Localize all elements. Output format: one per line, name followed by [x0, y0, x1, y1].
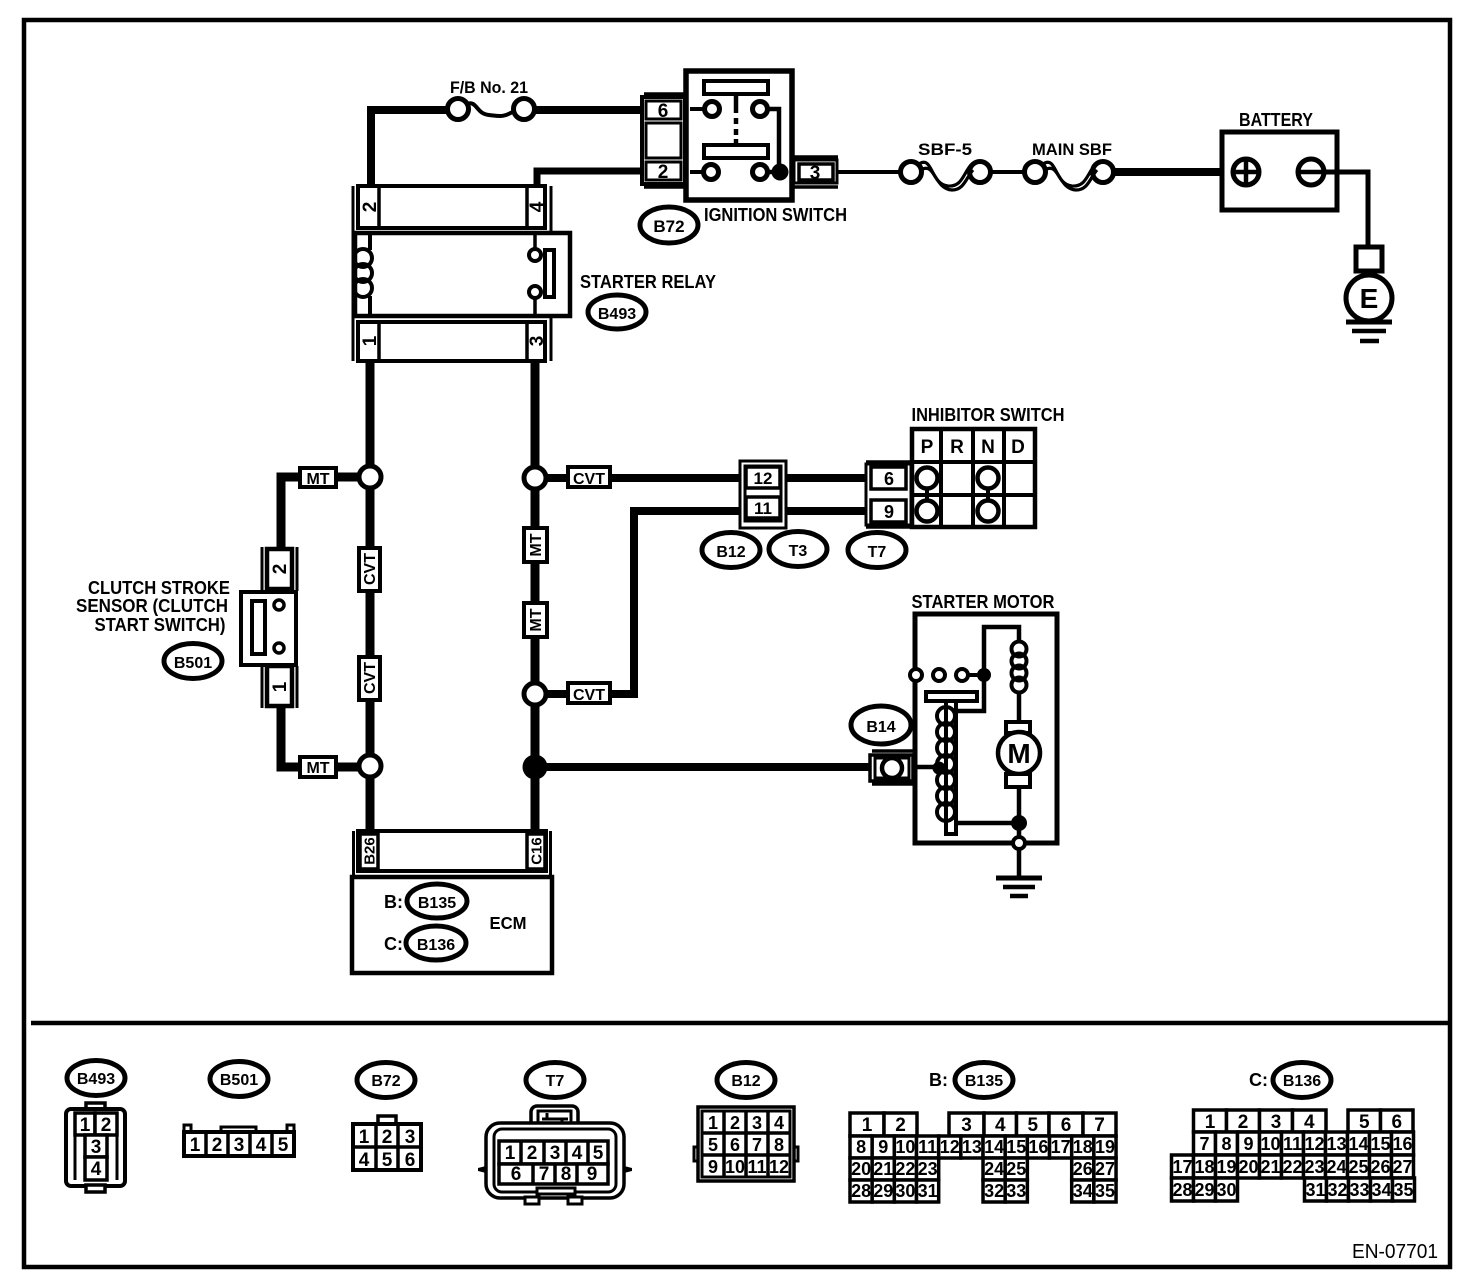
svg-text:B12: B12: [716, 544, 745, 561]
svg-text:N: N: [981, 437, 995, 458]
svg-text:M: M: [1007, 738, 1030, 769]
connector T3 oval: [769, 532, 827, 567]
svg-text:4: 4: [91, 1159, 102, 1180]
svg-text:34: 34: [1073, 1181, 1093, 1201]
solenoid contacts: [910, 668, 991, 682]
svg-text:F/B No. 21: F/B No. 21: [450, 78, 528, 97]
junction node middle trunk CVT: [524, 683, 546, 705]
svg-text:4: 4: [359, 1150, 370, 1171]
svg-text:B:: B:: [929, 1070, 948, 1090]
svg-text:5: 5: [278, 1135, 289, 1156]
battery plus terminal: [1233, 159, 1259, 185]
ignition switch contact bottom-left: [704, 165, 719, 180]
svg-text:5: 5: [1359, 1112, 1370, 1133]
solenoid plunger: [926, 692, 977, 834]
svg-text:29: 29: [1194, 1180, 1214, 1200]
svg-text:13: 13: [962, 1137, 982, 1157]
junction dot middle trunk to starter motor: [523, 755, 548, 780]
svg-text:8: 8: [774, 1135, 784, 1155]
svg-text:26: 26: [1073, 1159, 1093, 1179]
svg-text:5: 5: [382, 1150, 393, 1171]
wire relay pin3 down to ECM C16: [531, 361, 540, 831]
svg-text:12: 12: [754, 469, 773, 488]
svg-text:2: 2: [730, 1113, 740, 1133]
svg-text:B501: B501: [174, 655, 212, 672]
svg-text:4: 4: [995, 1115, 1006, 1136]
svg-text:1: 1: [708, 1113, 718, 1133]
junction dot solenoid feed: [933, 762, 946, 775]
svg-text:STARTER RELAY: STARTER RELAY: [580, 271, 717, 292]
svg-text:27: 27: [1392, 1157, 1412, 1177]
battery: [1222, 109, 1337, 210]
svg-text:6: 6: [1391, 1112, 1402, 1133]
legend connector T7 pin view: [478, 1106, 632, 1204]
svg-text:2: 2: [270, 564, 291, 575]
svg-text:9: 9: [708, 1157, 718, 1177]
svg-text:R: R: [950, 437, 964, 458]
connector B12 oval: [702, 533, 760, 568]
svg-text:3: 3: [91, 1137, 102, 1158]
starter relay body: [354, 233, 570, 316]
wire B14 to solenoid: [913, 765, 948, 770]
relay coil: [368, 233, 372, 250]
svg-text:30: 30: [895, 1181, 915, 1201]
svg-text:20: 20: [851, 1159, 871, 1179]
svg-text:12: 12: [769, 1157, 789, 1177]
svg-text:7: 7: [539, 1164, 550, 1185]
connector B72 pins 6 and 2: [642, 94, 685, 187]
ground symbol starter motor: [996, 849, 1042, 896]
svg-text:2: 2: [658, 162, 669, 183]
svg-text:11: 11: [918, 1137, 937, 1157]
legend connector B135 pin view: [850, 1113, 1116, 1202]
junction dot motor ground: [1011, 815, 1027, 831]
MT label box top: [300, 468, 336, 488]
svg-text:1: 1: [862, 1115, 873, 1136]
connector B12/T3 pins 12 and 11: [740, 461, 786, 528]
svg-text:3: 3: [810, 163, 821, 184]
svg-text:7: 7: [1199, 1134, 1209, 1154]
svg-text:B136: B136: [417, 937, 455, 954]
wire junction to connector 12: [546, 474, 741, 482]
svg-text:1: 1: [505, 1143, 516, 1164]
svg-text:9: 9: [587, 1164, 598, 1185]
motor M armature: [998, 722, 1040, 787]
svg-text:14: 14: [1348, 1134, 1368, 1154]
battery minus terminal: [1298, 159, 1324, 185]
svg-text:3: 3: [1271, 1112, 1282, 1133]
svg-text:4: 4: [774, 1113, 784, 1133]
svg-text:12: 12: [1304, 1134, 1324, 1154]
legend connector B493 pin view: [66, 1103, 125, 1192]
connector B493 oval: [588, 295, 646, 329]
svg-text:9: 9: [878, 1137, 888, 1157]
svg-text:11: 11: [1283, 1134, 1302, 1154]
svg-text:11: 11: [754, 499, 772, 518]
starter relay connector row bottom (pins 1,3): [358, 322, 548, 361]
wire junction dot to starter motor connector B14: [535, 763, 869, 771]
svg-text:22: 22: [895, 1159, 915, 1179]
svg-text:C:: C:: [1249, 1070, 1268, 1090]
ignition switch contact top-right: [753, 102, 768, 117]
svg-text:19: 19: [1095, 1137, 1115, 1157]
svg-text:B:: B:: [384, 892, 403, 912]
wire ignition switch pin 2 to starter relay pin 4: [537, 171, 643, 190]
svg-text:30: 30: [1216, 1180, 1236, 1200]
svg-text:8: 8: [1221, 1134, 1231, 1154]
svg-text:24: 24: [1326, 1157, 1346, 1177]
divider line between schematic and connector legend: [31, 1021, 1448, 1026]
svg-text:B12: B12: [731, 1073, 760, 1090]
junction dot ignition output: [772, 164, 789, 181]
legend connector B12 pin view: [694, 1107, 798, 1181]
svg-text:P: P: [921, 437, 934, 458]
legend connector B72 oval: [357, 1063, 415, 1098]
svg-text:MAIN SBF: MAIN SBF: [1032, 140, 1112, 159]
wire fuse to ignition switch connector pin 6: [533, 106, 643, 114]
CVT label box on left trunk lower: [359, 657, 380, 700]
svg-text:26: 26: [1370, 1157, 1390, 1177]
ignition switch contact top-left: [705, 102, 720, 117]
svg-text:4: 4: [1304, 1112, 1315, 1133]
svg-text:CVT: CVT: [362, 553, 379, 585]
wire from top-right contact to output node: [768, 109, 779, 168]
CVT label box on left trunk upper: [359, 548, 380, 591]
svg-text:10: 10: [1260, 1134, 1280, 1154]
fusible link MAIN SBF: [1025, 140, 1114, 190]
connector T7 oval: [848, 533, 906, 568]
CVT label box lower horizontal: [568, 683, 610, 704]
label CLUTCH STROKE SENSOR: [76, 577, 230, 635]
fuse F/B No. 21: [448, 78, 535, 120]
wire connector 11 to CVT lower branch: [546, 511, 741, 694]
ignition switch body: [686, 71, 792, 200]
svg-text:E: E: [1360, 283, 1379, 314]
CVT label box upper horizontal: [568, 467, 610, 488]
svg-text:35: 35: [1095, 1181, 1115, 1201]
wire dot to plunger: [957, 675, 984, 711]
svg-text:25: 25: [1006, 1159, 1026, 1179]
legend connector B136 oval: [1273, 1063, 1331, 1098]
legend connector B136 pin view: [1172, 1110, 1415, 1201]
svg-text:3: 3: [234, 1135, 245, 1156]
svg-text:3: 3: [752, 1113, 762, 1133]
MT label box bottom: [300, 757, 336, 777]
svg-text:B493: B493: [77, 1071, 115, 1088]
svg-text:16: 16: [1028, 1137, 1048, 1157]
svg-text:CVT: CVT: [573, 471, 605, 488]
svg-text:4: 4: [572, 1143, 583, 1164]
svg-text:5: 5: [1027, 1115, 1038, 1136]
svg-text:9: 9: [1243, 1134, 1253, 1154]
svg-text:MT: MT: [528, 608, 545, 631]
wire plunger to ground node: [956, 821, 1014, 826]
svg-text:T7: T7: [868, 544, 887, 561]
svg-text:6: 6: [884, 469, 894, 489]
connector pin 3 box: [792, 157, 838, 187]
svg-text:BATTERY: BATTERY: [1239, 109, 1314, 130]
svg-text:SBF-5: SBF-5: [918, 140, 972, 159]
svg-text:11: 11: [747, 1157, 766, 1177]
inhibitor switch connector pins 6/9: [866, 462, 912, 527]
svg-text:35: 35: [1393, 1180, 1413, 1200]
ignition switch contact bottom-right: [753, 165, 768, 180]
svg-text:33: 33: [1349, 1180, 1369, 1200]
relay contact: [533, 233, 537, 249]
svg-text:5: 5: [708, 1135, 718, 1155]
svg-text:6: 6: [730, 1135, 740, 1155]
junction node middle trunk top: [524, 467, 546, 489]
svg-text:CVT: CVT: [362, 662, 379, 694]
ECM body: [352, 877, 552, 973]
svg-text:8: 8: [561, 1164, 572, 1185]
svg-text:C:: C:: [384, 934, 403, 954]
svg-text:T7: T7: [546, 1073, 565, 1090]
svg-text:28: 28: [1172, 1180, 1192, 1200]
svg-text:EN-07701: EN-07701: [1352, 1241, 1438, 1263]
wire SBF-5 to MAIN SBF: [990, 170, 1025, 174]
svg-text:17: 17: [1172, 1157, 1192, 1177]
svg-text:32: 32: [984, 1181, 1004, 1201]
inhibitor switch grid: [912, 429, 1035, 527]
wire MAIN SBF to battery: [1113, 168, 1226, 176]
svg-text:CVT: CVT: [573, 687, 605, 704]
svg-text:ECM: ECM: [490, 913, 527, 933]
inhibitor contacts P column: [925, 478, 929, 511]
legend connector B501 oval: [210, 1062, 268, 1097]
svg-text:2: 2: [527, 1143, 538, 1164]
svg-text:4: 4: [256, 1135, 267, 1156]
svg-text:33: 33: [1006, 1181, 1026, 1201]
svg-text:START SWITCH): START SWITCH): [95, 614, 226, 635]
svg-text:T3: T3: [789, 543, 808, 560]
ground E symbol: [1346, 247, 1392, 341]
svg-text:C16: C16: [528, 837, 545, 865]
svg-text:B135: B135: [418, 895, 456, 912]
svg-text:2: 2: [382, 1127, 393, 1148]
starter relay connector row top (pins 2,4): [353, 186, 551, 361]
svg-text:29: 29: [873, 1181, 893, 1201]
connector B501 oval: [164, 644, 222, 679]
svg-text:31: 31: [1305, 1180, 1325, 1200]
svg-text:1: 1: [270, 681, 291, 692]
svg-text:12: 12: [940, 1137, 960, 1157]
svg-text:6: 6: [1061, 1115, 1072, 1136]
svg-text:B501: B501: [220, 1072, 258, 1089]
legend connector B72 pin view: [353, 1116, 421, 1171]
wire MT branch left from junction: [281, 477, 359, 551]
starter motor box: [915, 614, 1057, 843]
field coil: [1012, 642, 1027, 723]
svg-text:3: 3: [405, 1127, 416, 1148]
svg-text:23: 23: [918, 1159, 938, 1179]
svg-text:3: 3: [527, 336, 548, 347]
svg-text:32: 32: [1327, 1180, 1347, 1200]
svg-text:MT: MT: [306, 760, 329, 777]
svg-text:2: 2: [895, 1115, 906, 1136]
connector B14: [870, 751, 915, 784]
svg-text:6: 6: [658, 101, 669, 122]
legend connector B135 oval: [955, 1063, 1013, 1098]
svg-text:13: 13: [1326, 1134, 1346, 1154]
svg-text:21: 21: [873, 1159, 893, 1179]
svg-text:6: 6: [511, 1164, 522, 1185]
svg-text:IGNITION SWITCH: IGNITION SWITCH: [704, 204, 847, 225]
junction node left trunk top: [359, 466, 381, 488]
svg-text:B136: B136: [1283, 1073, 1321, 1090]
svg-text:27: 27: [1095, 1159, 1115, 1179]
svg-text:1: 1: [1205, 1112, 1216, 1133]
legend connector B493 oval: [67, 1061, 125, 1096]
wire to field coil: [984, 627, 1019, 675]
svg-text:2: 2: [212, 1135, 223, 1156]
svg-text:7: 7: [1094, 1115, 1105, 1136]
svg-text:19: 19: [1216, 1157, 1236, 1177]
svg-text:20: 20: [1238, 1157, 1258, 1177]
svg-text:B14: B14: [866, 719, 895, 736]
wire pin3 to SBF-5: [838, 170, 901, 174]
wire M to ground node: [1017, 787, 1022, 820]
svg-text:24: 24: [984, 1159, 1004, 1179]
svg-text:1: 1: [80, 1115, 91, 1136]
svg-text:MT: MT: [306, 471, 329, 488]
svg-text:31: 31: [918, 1181, 938, 1201]
svg-text:9: 9: [884, 502, 894, 522]
svg-text:SENSOR (CLUTCH: SENSOR (CLUTCH: [76, 595, 228, 616]
svg-text:17: 17: [1051, 1137, 1071, 1157]
solenoid pull-in coil: [937, 707, 955, 821]
svg-text:8: 8: [856, 1137, 866, 1157]
svg-text:14: 14: [984, 1137, 1004, 1157]
terminal circle on motor box edge: [1013, 837, 1025, 849]
svg-text:5: 5: [593, 1143, 604, 1164]
svg-text:18: 18: [1194, 1157, 1214, 1177]
svg-text:7: 7: [752, 1135, 762, 1155]
svg-text:15: 15: [1370, 1134, 1390, 1154]
svg-text:10: 10: [895, 1137, 915, 1157]
svg-text:21: 21: [1260, 1157, 1280, 1177]
clutch sensor connector pin 1: [262, 666, 297, 708]
svg-text:15: 15: [1006, 1137, 1026, 1157]
wire connector 11 to inhibitor pin 9: [786, 507, 866, 515]
svg-text:1: 1: [360, 335, 381, 346]
svg-text:B493: B493: [598, 306, 636, 323]
fusible link SBF-5: [901, 140, 991, 190]
svg-text:B72: B72: [371, 1073, 400, 1090]
svg-text:22: 22: [1282, 1157, 1302, 1177]
svg-text:23: 23: [1304, 1157, 1324, 1177]
svg-text:18: 18: [1073, 1137, 1093, 1157]
ECM connector row (B26 / C16): [354, 831, 551, 875]
svg-text:3: 3: [961, 1115, 972, 1136]
svg-text:1: 1: [359, 1127, 370, 1148]
legend connector B501 pin view: [184, 1125, 294, 1156]
MT label box on middle trunk upper: [524, 528, 547, 562]
svg-text:B26: B26: [361, 837, 378, 865]
svg-text:MT: MT: [528, 533, 545, 556]
inhibitor contacts N column: [986, 478, 990, 511]
wire relay pin1 down to ECM B26: [366, 361, 375, 831]
svg-text:D: D: [1011, 437, 1025, 458]
clutch sensor connector pin 2: [262, 547, 297, 591]
svg-text:2: 2: [101, 1115, 112, 1136]
svg-text:3: 3: [550, 1143, 561, 1164]
svg-text:INHIBITOR SWITCH: INHIBITOR SWITCH: [912, 404, 1065, 425]
legend connector B12 oval: [717, 1063, 775, 1098]
clutch stroke sensor body: [241, 592, 296, 665]
svg-text:2: 2: [360, 202, 381, 213]
svg-text:4: 4: [527, 201, 548, 212]
svg-text:2: 2: [1238, 1112, 1249, 1133]
svg-text:34: 34: [1371, 1180, 1391, 1200]
svg-text:6: 6: [405, 1150, 416, 1171]
junction node left trunk bottom: [359, 755, 381, 777]
wire battery to ground E: [1324, 172, 1368, 247]
MT label box on middle trunk lower: [524, 603, 547, 637]
svg-text:10: 10: [725, 1157, 745, 1177]
connector B14 oval: [851, 706, 911, 744]
svg-text:STARTER MOTOR: STARTER MOTOR: [912, 591, 1055, 612]
wire connector 12 to inhibitor pin 6: [786, 474, 866, 482]
svg-text:B135: B135: [965, 1073, 1003, 1090]
legend connector T7 oval: [526, 1063, 584, 1098]
svg-text:16: 16: [1392, 1134, 1412, 1154]
svg-text:B72: B72: [653, 217, 684, 236]
svg-text:1: 1: [190, 1135, 201, 1156]
svg-text:28: 28: [851, 1181, 871, 1201]
svg-text:25: 25: [1348, 1157, 1368, 1177]
connector B72 oval: [640, 207, 698, 243]
wire from starter relay pin 2 up to fuse F/B No. 21: [371, 110, 448, 190]
